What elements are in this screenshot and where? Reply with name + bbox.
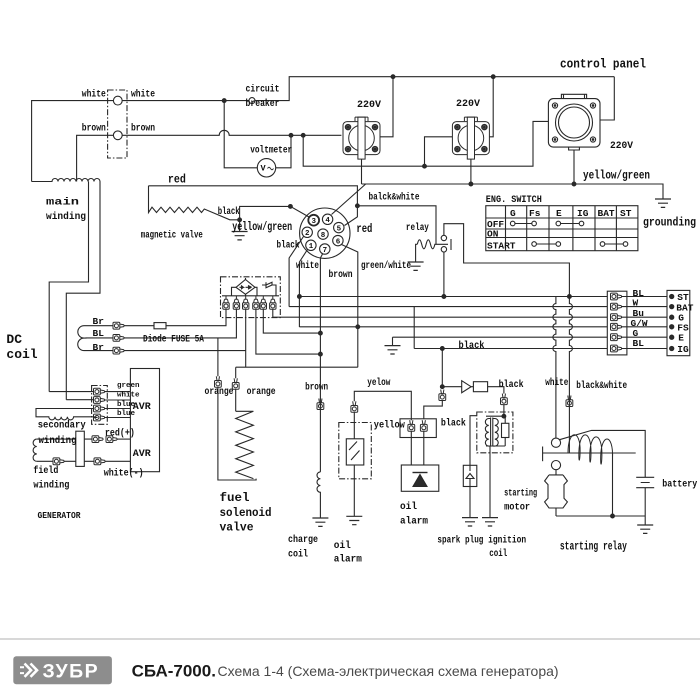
wire3 from pin6 (273, 309, 608, 317)
svg-text:fuel: fuel (220, 491, 250, 505)
starting relay blade (560, 430, 646, 477)
battery (636, 477, 654, 487)
wire red+ to AVR (117, 438, 130, 440)
wire orange2 link (235, 367, 237, 411)
node white-voltmeter (222, 99, 226, 103)
svg-text:black: black (459, 340, 485, 352)
pin 6 (333, 235, 343, 245)
wire socket2 right feed (490, 77, 494, 137)
ground relay (408, 262, 424, 270)
svg-text:oil: oil (400, 501, 417, 513)
wire field mid (64, 460, 94, 462)
node busB socket2 (469, 182, 473, 186)
svg-text:grounding: grounding (643, 216, 696, 230)
node voltmeter-brown (289, 133, 293, 137)
220V socket 1 (343, 117, 380, 159)
connector brown inline (317, 399, 324, 410)
wire fuel top feed (236, 366, 358, 368)
svg-text:spark plug: spark plug (437, 534, 483, 546)
svg-text:balck&white: balck&white (369, 192, 420, 204)
connector DC Br bottom (113, 347, 124, 354)
svg-text:brown: brown (131, 123, 155, 135)
svg-text:white: white (296, 260, 319, 272)
diode in block (262, 282, 276, 296)
svg-text:starting: starting (504, 488, 537, 500)
node wire6 black (440, 347, 444, 351)
ground wire5 (392, 337, 394, 345)
wire pin1 white drop (299, 250, 307, 328)
svg-text:3: 3 (312, 218, 317, 226)
cdi box (473, 382, 487, 392)
connector black&white inline (566, 396, 573, 407)
wire DC tap top (84, 325, 113, 327)
wire green to box (49, 391, 93, 393)
svg-text:solenoid: solenoid (220, 506, 272, 520)
svg-text:ENG. SWITCH: ENG. SWITCH (486, 194, 542, 206)
wire diode pin3 drop (245, 309, 247, 367)
svg-text:brown: brown (305, 382, 328, 394)
svg-text:1: 1 (309, 243, 314, 251)
pin 8 (318, 229, 328, 239)
wire pin7 brown drop (320, 254, 322, 472)
diode block pin1 (223, 296, 229, 310)
svg-text:brown: brown (82, 123, 106, 135)
wire orange branch (217, 338, 219, 376)
strip connectors (611, 293, 622, 300)
wire main-winding drop right (66, 182, 100, 400)
svg-text:Br: Br (93, 316, 105, 327)
wire white left (32, 101, 114, 182)
svg-text:control panel: control panel (560, 57, 646, 72)
svg-text:E: E (678, 333, 684, 344)
field winding (33, 439, 37, 461)
svg-text:white: white (545, 377, 568, 389)
wire ignition ground (489, 446, 491, 518)
node pin5 brown (319, 331, 323, 335)
wire socket2 left feed (425, 137, 453, 166)
connector field red1 (92, 436, 103, 443)
ground battery (637, 525, 653, 533)
wires strip to key block (622, 297, 668, 349)
footer divider line (0, 638, 700, 640)
wire brown right (hop over voltmeter drop) (122, 130, 341, 135)
svg-text:starting relay: starting relay (560, 540, 627, 554)
wire DC tap mid (84, 337, 113, 339)
wire2-to-wire6 riser (413, 307, 415, 349)
connector avr white (94, 397, 105, 404)
terminal brown (113, 131, 122, 140)
wire red to relay coil (357, 206, 436, 245)
pin 4 (322, 214, 332, 224)
node busA socket2 feed (423, 164, 427, 168)
connector field red2 (106, 436, 117, 443)
wire socket3 right feed (600, 77, 614, 120)
svg-text:black: black (277, 240, 300, 252)
svg-text:battery: battery (662, 479, 698, 491)
diode block bus (222, 295, 279, 297)
ground oil sensor (346, 516, 362, 524)
pin 1 (306, 240, 316, 250)
brush block (76, 431, 85, 466)
node white wire1 (298, 295, 302, 299)
svg-text:green: green (117, 382, 140, 390)
svg-text:magnetic valve: magnetic valve (141, 229, 203, 241)
ZUBR logo box (13, 656, 112, 684)
svg-text:BL: BL (93, 328, 105, 339)
charge coil (317, 472, 320, 518)
wire relay bottom contact (443, 252, 445, 297)
wire white right to breaker (122, 77, 614, 101)
wire bus A (neutral) (303, 121, 548, 166)
svg-text:red: red (356, 222, 372, 236)
relay blade (450, 239, 452, 250)
relay contact bottom (441, 247, 446, 252)
wire4 (299, 326, 607, 328)
connector alarm left (408, 420, 415, 431)
svg-text:IG: IG (677, 344, 689, 355)
terminal strip left box (607, 291, 627, 355)
ground yellow-green (239, 220, 241, 232)
node wire4 greenwhite (356, 325, 360, 329)
svg-text:white: white (117, 392, 140, 400)
svg-text:ST: ST (620, 208, 632, 219)
svg-text:yellow/green: yellow/green (232, 220, 292, 234)
diode block pin5 (260, 296, 266, 310)
ENG switch table (486, 206, 638, 251)
svg-text:FS: FS (677, 322, 689, 333)
wire field top (red+) (37, 438, 92, 440)
starting relay switch circle (551, 438, 560, 447)
diode block pin6 (270, 296, 276, 310)
wire sensor top (353, 412, 355, 439)
wire red from magnetic valve (149, 186, 358, 226)
pin 2 (302, 227, 312, 237)
connector field w1 (53, 458, 64, 465)
main winding coil (32, 179, 100, 182)
connector orange 1 (215, 376, 222, 387)
svg-text:valve: valve (220, 521, 254, 535)
svg-text:BAT: BAT (598, 208, 615, 219)
wire brown left (77, 135, 114, 181)
oil sensor box (339, 423, 372, 479)
wire pin4 to busB (balck&white) (332, 184, 366, 215)
svg-text:white(-): white(-) (104, 468, 144, 480)
wire6 (414, 348, 607, 350)
svg-text:coil: coil (288, 549, 308, 561)
wire alarm box to unit (411, 431, 424, 465)
svg-text:white: white (82, 89, 106, 101)
node busB socket3 (572, 182, 576, 186)
cdi triangle (442, 381, 471, 393)
wire relay coil to ground (416, 244, 418, 262)
bridge rectifier (236, 280, 255, 295)
oil sensor element (346, 439, 364, 465)
pin 7 (320, 244, 330, 254)
wire voltmeter loop (224, 101, 291, 168)
connector avr green (94, 388, 105, 395)
wire socket3 bottom tab (573, 150, 575, 184)
node top bus socket2 (491, 75, 495, 79)
wire ignition top (503, 405, 505, 417)
svg-text:green/white: green/white (361, 260, 411, 272)
svg-text:brown: brown (329, 269, 353, 281)
AVR box (130, 369, 159, 472)
wire bus B (yellow/green to ground) (362, 184, 664, 199)
wire orange1 down to valve bottom (218, 387, 256, 480)
svg-text:GENERATOR: GENERATOR (38, 510, 81, 521)
svg-text:alarm: alarm (400, 516, 428, 528)
wire field bottom (white-) (37, 460, 53, 462)
svg-text:white: white (131, 89, 155, 101)
wire main-winding drop left (49, 182, 88, 392)
wire spark plug ground (469, 487, 471, 518)
wire pin6 green-white drop (342, 245, 358, 368)
svg-text:G: G (510, 208, 516, 219)
fuel solenoid zigzag (236, 411, 254, 478)
wire white drop to start relay (553, 297, 556, 439)
switch contacts START row (532, 242, 628, 247)
connector cdi-left inline (439, 390, 446, 401)
starting motor terminal (551, 461, 560, 470)
svg-text:yelow: yelow (367, 377, 391, 389)
secondary winding (36, 409, 98, 420)
svg-text:V: V (261, 164, 267, 174)
spark plug (463, 465, 477, 486)
ignition transformer (486, 416, 505, 446)
node brown bus drop (301, 133, 305, 137)
svg-text:Схема 1-4 (Схема-электрическая: Схема 1-4 (Схема-электрическая схема ген… (218, 663, 559, 679)
svg-text:black&white: black&white (576, 380, 627, 392)
connector alarm right (420, 420, 427, 431)
ground ignition (482, 518, 498, 526)
svg-text:ON: ON (487, 229, 499, 240)
wire white- to AVR (105, 460, 130, 462)
wire socket1 bottom to bus B (361, 160, 363, 185)
svg-text:winding: winding (33, 480, 69, 492)
diode block pin4 (253, 296, 259, 310)
svg-text:main: main (46, 197, 79, 209)
diode-fuse block box (221, 277, 281, 318)
wire socket2 bottom drop (470, 160, 472, 185)
svg-text:8: 8 (321, 232, 326, 240)
magnetic valve zigzag (149, 186, 240, 220)
connector DC BL mid (113, 335, 124, 342)
wire cdi-left to alarm box (424, 401, 443, 419)
svg-text:START: START (487, 241, 516, 252)
connector sensor (351, 401, 358, 412)
node ignition (502, 414, 506, 418)
connector field w2 (94, 458, 105, 465)
wire spark plug feed (470, 416, 477, 466)
ground charge coil (312, 518, 328, 526)
svg-text:220V: 220V (357, 99, 382, 111)
svg-text:orange: orange (247, 386, 276, 398)
wire sensor to alarm box (354, 391, 411, 420)
svg-text:secondary: secondary (38, 420, 87, 432)
svg-text:red: red (168, 173, 186, 187)
svg-text:5: 5 (337, 226, 342, 234)
connector avr blue2 (94, 414, 105, 421)
svg-text:alarm: alarm (334, 554, 362, 566)
svg-text:black: black (499, 379, 524, 391)
svg-text:220V: 220V (610, 140, 634, 152)
svg-text:4: 4 (325, 217, 330, 225)
svg-text:relay: relay (406, 222, 430, 234)
node black yellow-green (289, 205, 293, 209)
node blackwhite wire1 (568, 295, 572, 299)
node pin4 brown (319, 352, 323, 356)
starting relay coil line (543, 452, 636, 454)
svg-text:E: E (556, 208, 562, 219)
switch contacts OFF row (510, 221, 583, 226)
wire Br bottom run (124, 350, 246, 352)
node relay wire1 (442, 295, 446, 299)
wire pin2 black drop (289, 237, 303, 307)
ground grounding (panel) (655, 199, 671, 207)
node red branch (356, 204, 360, 208)
wire1 (299, 296, 607, 298)
pin 5 (334, 222, 344, 232)
connector ignition inline (501, 394, 508, 405)
svg-text:coil: coil (489, 548, 507, 560)
connector orange 2 (232, 378, 239, 389)
wire black valve to connector (240, 206, 309, 219)
svg-text:yellow: yellow (374, 419, 406, 431)
svg-text:red(+): red(+) (105, 428, 135, 440)
svg-text:winding: winding (39, 435, 77, 447)
key switch block (667, 290, 690, 355)
svg-text:7: 7 (323, 247, 328, 255)
fuse 5A (154, 323, 166, 329)
svg-text:field: field (33, 465, 58, 477)
svg-text:ignition: ignition (488, 534, 526, 546)
wire DC tap bottom (84, 350, 113, 352)
diode block pin2 (233, 296, 239, 310)
svg-text:220V: 220V (456, 98, 481, 110)
key block dots (670, 294, 674, 298)
voltmeter (257, 159, 275, 177)
wire start relay coil drop (612, 453, 614, 516)
svg-text:IG: IG (577, 208, 589, 219)
connector DC Br top (113, 322, 124, 329)
svg-text:ЗУБР: ЗУБР (43, 661, 100, 683)
wire motor bottom to battery (556, 515, 645, 517)
ignition coil box (477, 412, 513, 453)
wire pin4 right (256, 309, 321, 354)
svg-text:2: 2 (305, 230, 310, 238)
wire2 (289, 306, 607, 308)
svg-text:orange: orange (205, 386, 234, 398)
svg-text:Fs: Fs (529, 208, 541, 219)
220V socket 2 (452, 117, 489, 159)
circuit breaker (249, 98, 255, 104)
svg-text:AVR: AVR (133, 401, 152, 413)
starting relay coil (568, 435, 613, 464)
oil alarm connector box (400, 419, 436, 438)
node cdi (440, 385, 444, 389)
220V socket 3 (large) (548, 94, 600, 150)
svg-text:AVR: AVR (133, 448, 152, 460)
oil alarm unit (401, 465, 439, 491)
wire socket1 right feed (380, 77, 393, 137)
svg-text:black: black (218, 206, 240, 218)
node coil bottom (611, 514, 615, 518)
connector block top-left (108, 90, 127, 158)
svg-text:6: 6 (336, 239, 341, 247)
wire pin5 right (263, 309, 320, 333)
starting relay armature bar (542, 447, 544, 462)
wire sensor bottom ground (353, 465, 355, 516)
svg-text:circuit: circuit (246, 84, 280, 96)
relay contact top (441, 235, 446, 240)
round connector outer circle (300, 208, 350, 258)
starting motor body (545, 470, 568, 516)
node top bus socket1 (391, 75, 395, 79)
diode block pin3 (243, 296, 249, 310)
ground spark plug (462, 518, 478, 526)
svg-text:winding: winding (46, 211, 86, 223)
AVR connector box (92, 386, 108, 425)
diode symbol in alarm unit (413, 472, 428, 474)
svg-text:BL: BL (633, 338, 645, 349)
wire black cdi drop (441, 349, 443, 389)
svg-text:W: W (633, 297, 639, 308)
wire5 (393, 336, 608, 338)
wire BL run (124, 309, 236, 338)
ZUBR logo arrow (20, 664, 37, 677)
svg-text:yellow/green: yellow/green (583, 169, 650, 183)
wire bridge taps (232, 278, 258, 296)
svg-text:coil: coil (6, 347, 37, 362)
svg-text:charge: charge (288, 534, 318, 546)
DC coil (78, 326, 84, 351)
svg-text:Br: Br (93, 342, 105, 353)
svg-text:Diode FUSE 5A: Diode FUSE 5A (143, 334, 205, 346)
wire relay top contact (444, 224, 573, 453)
svg-text:black: black (441, 417, 466, 429)
svg-text:СБА-7000.: СБА-7000. (132, 662, 216, 681)
svg-text:voltmeter: voltmeter (250, 145, 292, 157)
node valve black junction (238, 218, 242, 222)
svg-text:oil: oil (334, 540, 351, 552)
svg-text:DC: DC (6, 332, 22, 347)
svg-text:motor: motor (504, 502, 530, 514)
svg-text:breaker: breaker (246, 98, 280, 110)
relay coil (417, 240, 448, 249)
wire white to box (66, 399, 93, 401)
connector avr blue1 (94, 405, 105, 412)
wires avr pins to AVR (105, 392, 131, 418)
pin 3 (bold) (308, 215, 319, 226)
terminal white (113, 96, 122, 105)
wire Br fuse run (124, 309, 226, 325)
